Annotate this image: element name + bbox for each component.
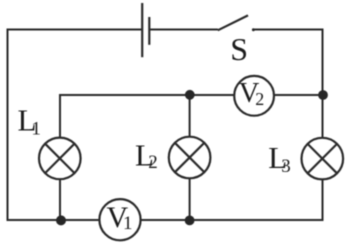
svg-text:2: 2 <box>148 152 158 173</box>
svg-text:2: 2 <box>255 89 264 109</box>
svg-text:1: 1 <box>123 213 133 234</box>
svg-text:1: 1 <box>31 118 41 139</box>
svg-text:S: S <box>230 31 248 67</box>
svg-text:3: 3 <box>281 156 291 177</box>
